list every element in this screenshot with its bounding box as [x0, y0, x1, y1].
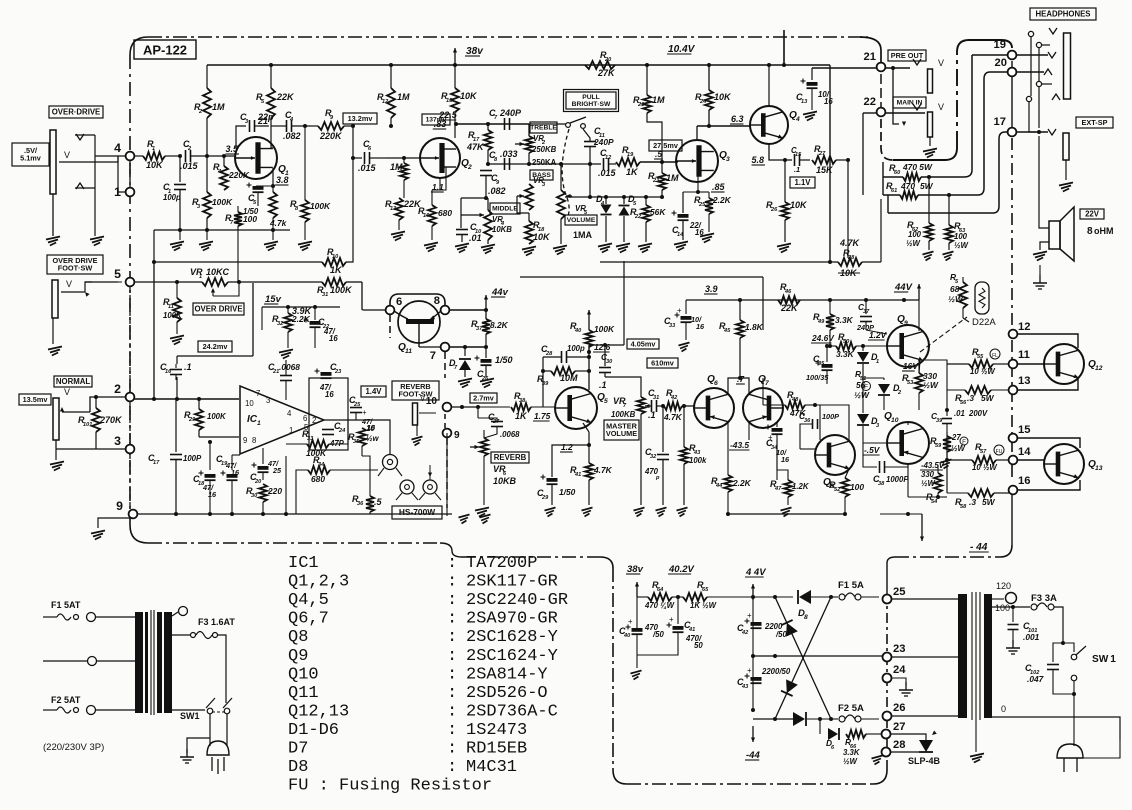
fuse F3 3A psu	[1031, 593, 1063, 643]
svg-text:2SC1624-Y: 2SC1624-Y	[466, 647, 558, 666]
svg-text:-43.5: -43.5	[730, 440, 749, 450]
wire top right vertical	[1039, 265, 1041, 275]
svg-text:2SD526-O: 2SD526-O	[466, 684, 548, 703]
svg-text:44V: 44V	[894, 282, 913, 293]
svg-text:100: 100	[908, 230, 922, 239]
svg-text:100K: 100K	[594, 324, 615, 334]
parts list table	[288, 554, 568, 796]
svg-text:D7: D7	[288, 740, 308, 759]
wire Q12 leads	[1017, 334, 1078, 390]
diode bridge D8 d1	[793, 590, 831, 621]
svg-text:220K: 220K	[319, 131, 343, 141]
svg-text:/50: /50	[652, 630, 665, 639]
svg-text:1.1V: 1.1V	[794, 178, 811, 187]
resistor R9 220K	[310, 108, 353, 141]
capacitor C19 47/16	[216, 454, 240, 514]
resistor R50 3.3K	[811, 332, 887, 359]
svg-text:.01: .01	[469, 233, 482, 243]
label 24.2mV box	[198, 341, 232, 352]
node 2	[114, 382, 134, 401]
svg-text:10: 10	[426, 396, 438, 407]
wire 100 line	[992, 605, 1030, 609]
label 220/230V 3P	[43, 742, 104, 753]
capacitor C27 .0068	[476, 405, 520, 439]
svg-text:65: 65	[702, 587, 709, 593]
svg-text:14: 14	[677, 232, 684, 238]
svg-text:22p: 22p	[257, 112, 274, 122]
svg-text:200V: 200V	[968, 409, 988, 418]
resistor R41 4.7K	[570, 445, 613, 517]
svg-text:V: V	[938, 58, 944, 68]
svg-text:137mv: 137mv	[426, 117, 447, 124]
resistor R12 1M	[377, 65, 410, 128]
svg-text:2SA814-Y: 2SA814-Y	[466, 665, 548, 684]
capacitor C13 10/16	[796, 68, 833, 121]
resistor R23 1M	[648, 162, 679, 197]
wire Q13 leads	[1017, 438, 1080, 490]
label .5V/5.1mV box	[12, 143, 49, 166]
label HEADPHONES box	[1030, 8, 1096, 20]
svg-text:54: 54	[931, 499, 938, 505]
wire psu 44V rail	[751, 584, 755, 712]
transistor Q13 2SD736A	[1044, 444, 1103, 484]
svg-text:.015: .015	[358, 163, 377, 173]
resistor R8 100K	[290, 124, 331, 251]
diode D2	[863, 378, 902, 410]
wire output node net	[908, 493, 947, 499]
svg-text:OVER DRIVE: OVER DRIVE	[194, 304, 242, 313]
svg-text:12: 12	[1018, 321, 1030, 333]
svg-text:47: 47	[774, 486, 782, 492]
svg-text:39: 39	[542, 381, 549, 387]
svg-text:2200/50: 2200/50	[761, 667, 791, 676]
ground reverb area	[459, 505, 491, 524]
svg-text:470 5W: 470 5W	[902, 162, 933, 172]
svg-text:13: 13	[390, 206, 397, 212]
svg-text:10K: 10K	[146, 160, 164, 170]
svg-text:15v: 15v	[265, 294, 282, 305]
svg-text:7: 7	[765, 380, 769, 387]
resistor R101 270K	[78, 395, 123, 449]
svg-text:38: 38	[878, 481, 885, 487]
svg-text:6: 6	[396, 296, 402, 308]
node 8	[434, 295, 450, 314]
svg-text:Q4,5: Q4,5	[288, 591, 329, 610]
wire Q1 drain	[257, 116, 273, 148]
capacitor C34 10/16	[763, 422, 790, 464]
svg-text:22V: 22V	[1085, 209, 1100, 218]
resistor R39 10M	[537, 367, 589, 387]
resistor R51 56	[854, 369, 870, 400]
svg-text:16: 16	[165, 369, 172, 375]
svg-text:1M: 1M	[397, 92, 410, 102]
svg-text:OVER·DRIVE: OVER·DRIVE	[52, 107, 101, 116]
svg-text:.015: .015	[180, 161, 199, 171]
label 38V rail	[453, 46, 484, 65]
wire speaker bus	[888, 195, 993, 213]
wire node22 left lead	[863, 113, 925, 195]
svg-text:19: 19	[994, 39, 1006, 51]
svg-text:35: 35	[818, 361, 825, 367]
resistor R5 22K	[256, 65, 295, 126]
label 610mV box	[647, 358, 678, 368]
svg-text:10: 10	[891, 417, 899, 424]
node 19	[994, 39, 1017, 59]
svg-text:55: 55	[977, 354, 984, 360]
svg-text:F3 1.6AT: F3 1.6AT	[198, 617, 235, 627]
terminal 120	[992, 593, 1017, 604]
wire Q3 base	[660, 160, 678, 162]
svg-text:8.2K: 8.2K	[490, 320, 509, 330]
svg-text:5.1mv: 5.1mv	[20, 154, 42, 163]
svg-text:44: 44	[715, 483, 723, 489]
svg-text:19: 19	[627, 152, 634, 158]
svg-text:½w: ½w	[366, 434, 380, 443]
resistor R17 47K	[466, 124, 492, 164]
svg-text:oHM: oHM	[1094, 226, 1114, 236]
svg-text:8: 8	[252, 436, 256, 445]
svg-text:22: 22	[864, 96, 876, 108]
svg-text:10: 10	[366, 424, 375, 433]
svg-text:.082: .082	[488, 186, 506, 196]
resistor R16 680	[418, 178, 452, 252]
svg-text:4.7K: 4.7K	[839, 238, 861, 248]
svg-text:1K ½W: 1K ½W	[690, 601, 717, 610]
transformer T1 primary	[135, 612, 148, 713]
capacitor C15	[791, 146, 810, 174]
svg-text:10KC: 10KC	[206, 267, 230, 277]
svg-text:100: 100	[850, 482, 864, 492]
node 15	[1009, 424, 1031, 442]
svg-text:24: 24	[893, 664, 906, 676]
wire Q1 bottom bus	[154, 228, 290, 262]
wire Q3 emitter net	[683, 176, 700, 194]
wire loop left down	[882, 162, 884, 195]
capacitor C38 1000p	[863, 443, 909, 487]
label 8 OHM	[1087, 226, 1114, 237]
svg-text:10M: 10M	[560, 373, 578, 383]
resistor R53 330	[902, 331, 939, 410]
svg-text:40: 40	[623, 633, 631, 639]
svg-text:49: 49	[817, 319, 825, 325]
node 9b	[443, 429, 460, 441]
svg-text:27: 27	[893, 721, 905, 733]
svg-text:41: 41	[688, 627, 695, 633]
resistor R10 1K	[322, 210, 353, 275]
svg-text:MIDDLE: MIDDLE	[492, 206, 518, 213]
wire middle node	[461, 196, 488, 217]
svg-text:11: 11	[405, 348, 412, 355]
label -43.5	[729, 440, 750, 450]
svg-text:1: 1	[289, 426, 293, 435]
wire speaker feed	[1038, 136, 1040, 204]
wire main board border bottom jog	[440, 543, 887, 784]
svg-text:22K: 22K	[276, 92, 295, 102]
svg-text:.1: .1	[599, 380, 607, 390]
svg-text:.0068: .0068	[279, 362, 300, 372]
svg-text:MAIN IN: MAIN IN	[897, 100, 923, 107]
label 40.2V psu	[668, 564, 694, 575]
svg-text:1: 1	[152, 146, 155, 152]
diode D4	[596, 194, 612, 253]
capacitor C102 .047	[1025, 643, 1076, 696]
capacitor C42 2200/50	[737, 597, 788, 650]
label 44V psu	[745, 567, 766, 578]
resistor R13 22K	[385, 198, 422, 241]
wire R7 down to VR1 net	[237, 226, 239, 282]
wire R66 D6 branch	[818, 717, 826, 734]
svg-text:- 44: - 44	[970, 542, 988, 553]
svg-text:12: 12	[605, 155, 612, 161]
resistor R24 10K	[695, 63, 732, 126]
capacitor C20 47/25	[250, 448, 282, 485]
svg-text:VOLUME: VOLUME	[606, 429, 637, 438]
svg-text:11: 11	[1018, 349, 1030, 361]
svg-text:100P: 100P	[183, 454, 202, 463]
diode D5	[616, 194, 637, 253]
resistor R56 .3 5W	[947, 386, 1008, 410]
resistor R44 2.2K	[711, 440, 752, 514]
svg-text::: :	[447, 647, 457, 666]
svg-text:44v: 44v	[491, 287, 509, 298]
resistor R63 100 halfW	[943, 195, 969, 261]
svg-text:.01: .01	[954, 409, 965, 418]
svg-text:4.7K: 4.7K	[663, 412, 683, 422]
svg-text:D22A: D22A	[972, 317, 996, 328]
svg-text:F1 5AT: F1 5AT	[51, 600, 81, 610]
node 10	[426, 396, 452, 411]
resistor R11 100K	[163, 282, 184, 345]
wire Q8 base	[800, 424, 815, 449]
resistor R18 10K	[522, 213, 551, 256]
svg-text:10: 10	[245, 399, 254, 408]
wire -44 output	[726, 497, 924, 541]
svg-text:38: 38	[519, 398, 526, 404]
label F2 5AT	[51, 695, 81, 705]
svg-text:2.2K: 2.2K	[732, 478, 752, 488]
svg-text:27: 27	[818, 151, 826, 157]
svg-text:.1: .1	[648, 410, 656, 420]
resistor R34 680	[308, 455, 330, 484]
svg-text:1K: 1K	[626, 167, 639, 177]
svg-text:16: 16	[1018, 475, 1030, 487]
node 25	[883, 586, 906, 604]
svg-text:16: 16	[325, 390, 334, 399]
svg-text:38v: 38v	[627, 564, 644, 575]
svg-text:1M: 1M	[390, 162, 403, 172]
svg-text:64: 64	[657, 587, 664, 593]
resistor R36 .5	[352, 456, 383, 514]
wire C30 to VR7	[605, 377, 641, 397]
svg-text:9: 9	[904, 320, 908, 327]
svg-text:½W: ½W	[923, 380, 939, 390]
svg-text:2SC1628-Y: 2SC1628-Y	[466, 628, 558, 647]
svg-text:58: 58	[960, 504, 967, 510]
capacitor C32 470p	[644, 404, 669, 517]
wire Q9 emitter down	[919, 358, 920, 373]
svg-text:26: 26	[481, 376, 489, 382]
svg-text:SW 1: SW 1	[1092, 654, 1116, 665]
capacitor C25 47/16	[349, 395, 376, 432]
resistor R15 10K	[438, 65, 478, 138]
svg-text:-44: -44	[746, 750, 760, 761]
svg-text:½W: ½W	[843, 757, 858, 766]
node 4	[114, 141, 134, 160]
svg-text:4: 4	[287, 409, 292, 418]
svg-text:37: 37	[863, 309, 870, 315]
svg-text:4.7K: 4.7K	[593, 465, 613, 475]
resistor R33 100K	[302, 429, 329, 458]
svg-text:25: 25	[272, 466, 282, 475]
jack reverb send RCA	[378, 455, 402, 477]
svg-text:250KA: 250KA	[532, 158, 557, 167]
svg-text:20: 20	[254, 479, 262, 485]
wire node17 bus down	[993, 132, 1008, 213]
svg-text:1.2K: 1.2K	[792, 482, 810, 491]
svg-text::: :	[447, 554, 457, 573]
svg-text:2SD736A-C: 2SD736A-C	[466, 702, 558, 721]
svg-text:28: 28	[545, 351, 553, 357]
svg-text:REVERB: REVERB	[494, 453, 527, 462]
svg-text:10 ½W: 10 ½W	[972, 463, 997, 472]
svg-text:36: 36	[357, 501, 364, 507]
svg-text:+: +	[747, 611, 752, 620]
wire reverb return net	[447, 405, 478, 429]
svg-text:15: 15	[1018, 424, 1030, 436]
svg-text:1.2V: 1.2V	[869, 330, 888, 340]
svg-text:100K: 100K	[310, 201, 331, 211]
svg-text:1M: 1M	[652, 95, 665, 105]
svg-text:3.3K: 3.3K	[843, 748, 861, 757]
wire psu to transformer	[891, 599, 958, 716]
resistor R47 1.2K	[770, 440, 810, 517]
svg-text:16: 16	[423, 213, 430, 219]
resistor R14 1M	[390, 156, 408, 198]
capacitor C101 .001	[1006, 607, 1040, 654]
svg-text:HS-700W: HS-700W	[399, 507, 435, 517]
svg-text:10K: 10K	[533, 232, 551, 242]
svg-text:1.2: 1.2	[561, 442, 573, 452]
svg-text:FU : Fusing Resistor: FU : Fusing Resistor	[288, 777, 492, 796]
svg-text:16: 16	[231, 468, 240, 477]
svg-text:½W: ½W	[906, 239, 921, 248]
resistor R2 1M	[194, 88, 225, 156]
svg-text:½W: ½W	[948, 294, 964, 304]
svg-text:TREBLE: TREBLE	[530, 125, 557, 132]
svg-text:41: 41	[574, 472, 581, 478]
wire Q2 source tap	[432, 167, 446, 196]
svg-text::: :	[447, 758, 457, 777]
label F3 1.6AT	[198, 617, 235, 627]
wire Q1 source net	[273, 168, 289, 186]
fuse F2 5AT	[43, 706, 135, 715]
svg-text:.082: .082	[283, 131, 301, 141]
wire 44V arrow poweramp	[894, 282, 921, 330]
wire C6 to Q2	[386, 119, 446, 158]
resistor R32 2.2K	[272, 305, 313, 359]
svg-text:1.75: 1.75	[534, 411, 551, 421]
svg-text:100: 100	[995, 603, 1010, 613]
svg-text:56: 56	[856, 380, 866, 390]
svg-text:330: 330	[921, 470, 935, 479]
svg-text:3: 3	[726, 156, 730, 163]
wire node20 bus down	[978, 72, 1008, 195]
capacitor C23 47/16	[315, 362, 343, 399]
diode D3	[857, 364, 880, 436]
capacitor C37 240p	[856, 298, 887, 334]
svg-text:PRE OUT: PRE OUT	[891, 51, 924, 60]
svg-text:16: 16	[824, 97, 833, 106]
resistor R5x 68 thermistor	[948, 272, 967, 318]
svg-text:59: 59	[935, 443, 942, 449]
label 2.7mv box	[470, 393, 497, 403]
svg-text:FU: FU	[996, 449, 1003, 455]
svg-text:.015: .015	[598, 168, 617, 178]
svg-text:25: 25	[353, 402, 361, 408]
potentiometer VR7 master 100KB	[604, 396, 650, 517]
transformer T1 secondary	[157, 612, 172, 713]
svg-text:.3: .3	[967, 393, 974, 403]
label AP-122 box	[134, 40, 196, 59]
node 5	[114, 267, 134, 286]
wire overdrive down to C16	[177, 283, 253, 356]
capacitor C20 47/25 and friends	[221, 470, 223, 478]
svg-text:29: 29	[188, 417, 196, 423]
wire NFB run	[152, 260, 322, 264]
svg-text:42: 42	[741, 630, 749, 636]
svg-text:11: 11	[168, 304, 174, 310]
op-amp IC1 TA7200P	[240, 386, 324, 454]
svg-text:VOLUME: VOLUME	[567, 217, 596, 224]
resistor R43 100K	[677, 404, 708, 517]
svg-text:1K: 1K	[330, 265, 343, 275]
diode bridge D8 d4	[793, 595, 833, 726]
svg-text:20: 20	[604, 57, 612, 63]
svg-text:10KB: 10KB	[493, 476, 517, 486]
resistor R19 1K	[616, 145, 678, 177]
plug AC psu	[1057, 744, 1083, 772]
svg-text:.001: .001	[1023, 632, 1040, 642]
transistor Q1 2SK117	[225, 137, 289, 179]
node 26	[883, 702, 906, 721]
capacitor C43 2200/50	[737, 656, 791, 705]
resistor R65 1K	[683, 580, 753, 610]
svg-text:2SK117-GR: 2SK117-GR	[466, 573, 558, 592]
svg-text:25: 25	[698, 202, 706, 208]
label PRE OUT box	[888, 50, 926, 61]
wire plug psu	[1074, 694, 1120, 758]
svg-text:8: 8	[434, 295, 440, 307]
wire node19 to phones	[1016, 52, 1056, 58]
resistor R30 220	[246, 484, 282, 514]
svg-text:29: 29	[541, 495, 549, 501]
resistor R37 8.2K	[471, 310, 509, 347]
ground psu R66	[872, 756, 883, 765]
svg-text:.1: .1	[794, 165, 800, 174]
svg-text:45: 45	[723, 328, 731, 334]
potentiometer VR6 reverb 10KB	[470, 430, 529, 517]
svg-text:5: 5	[604, 398, 608, 405]
svg-text:4: 4	[114, 141, 121, 155]
svg-text:15: 15	[446, 98, 453, 104]
resistor R7 100	[225, 206, 257, 226]
wire Q9 out to R55 R56	[919, 360, 949, 412]
svg-text:47K: 47K	[466, 142, 485, 152]
plug AC 3P	[207, 741, 229, 774]
wire node 7 net	[419, 345, 488, 349]
svg-text:5: 5	[114, 267, 121, 281]
label 13.2mV box	[343, 113, 377, 124]
